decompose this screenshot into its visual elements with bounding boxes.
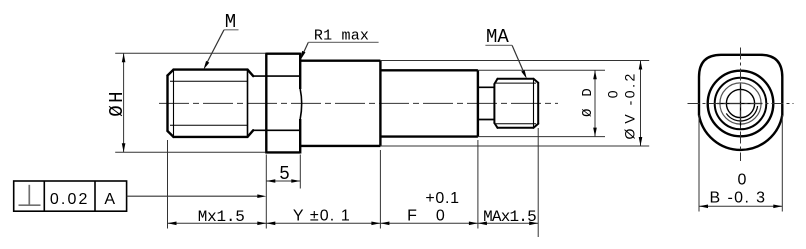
svg-text:Mx1.5: Mx1.5: [198, 208, 245, 226]
dimension 5: [266, 180, 300, 182]
centerline front view: [159, 102, 558, 104]
dimension OD line: [594, 70, 596, 136]
neck between thread and collar: [253, 75, 300, 77]
end view circle D: [726, 89, 754, 117]
bottom dimension chain line: [168, 222, 539, 224]
svg-text:0: 0: [738, 172, 747, 189]
thread M end line: [247, 70, 249, 137]
shoulder face: [477, 70, 479, 136]
perpendicularity symbol: [19, 185, 41, 205]
svg-text:MA: MA: [486, 26, 509, 48]
svg-text:A: A: [104, 191, 115, 208]
dimension B extension lines: [698, 115, 700, 212]
thread M chamfer line: [173, 70, 175, 137]
end view circle B: [715, 78, 767, 130]
thread M section outline: [168, 70, 254, 137]
end view thread arc E: [726, 106, 757, 121]
svg-text:0: 0: [436, 208, 445, 225]
chain arrows: [168, 222, 539, 226]
collar right edge bulge arc: [300, 89, 302, 119]
end view cross lines: [717, 103, 763, 105]
end view centerlines: [688, 103, 794, 105]
svg-text:0.02: 0.02: [50, 191, 90, 208]
FCF leader to collar face: [127, 195, 263, 197]
svg-text:F: F: [407, 208, 417, 225]
svg-text:0: 0: [605, 90, 621, 98]
end view outline: [699, 55, 782, 150]
dimension OH extension lines: [115, 52, 265, 54]
MA neck: [478, 86, 495, 88]
step face: [379, 61, 381, 146]
svg-text:MAx1.5: MAx1.5: [483, 208, 536, 226]
svg-text:B -0. 3: B -0. 3: [710, 190, 767, 207]
dimension OV line: [640, 61, 642, 147]
right body section: [380, 70, 478, 136]
thread MA outline: [494, 79, 538, 128]
end view circle A: [708, 71, 774, 137]
thread MA chamfer line: [533, 79, 535, 128]
svg-text:5: 5: [279, 163, 289, 183]
dimension OH line: [123, 53, 125, 152]
collar outline: [266, 53, 300, 154]
bottom dimension extension lines: [168, 128, 539, 237]
svg-text:+0.1: +0.1: [425, 190, 459, 207]
svg-text:ØV -0.2: ØV -0.2: [622, 71, 638, 139]
extension lines right dimensions: [380, 61, 649, 147]
end view circle C: [720, 83, 761, 124]
left body section: [300, 61, 380, 146]
svg-text:Y ±0. 1: Y ±0. 1: [293, 208, 351, 225]
datum feature control frame: [14, 181, 127, 211]
dimension B line: [699, 205, 782, 207]
thread MA minor lines: [496, 82, 536, 84]
thread M minor diameter lines: [170, 80, 247, 82]
